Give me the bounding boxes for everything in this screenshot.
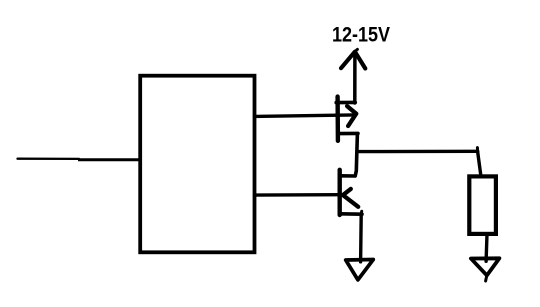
- supply arrow tip tail: [355, 49, 358, 51]
- wire Q1 collector to supply: [353, 54, 357, 104]
- transistor Q2 base bar: [338, 170, 342, 215]
- wire Q2 emitter to ground: [359, 214, 363, 262]
- wire corner down to resistor: [478, 151, 481, 176]
- wire resistor to ground: [484, 234, 488, 261]
- wire input (left, thin segment): [18, 158, 80, 160]
- ground (right): [471, 258, 500, 275]
- svg-text:12-15V: 12-15V: [332, 23, 390, 46]
- transistor Q1 base bar: [335, 97, 340, 141]
- transistor Q1 emitter horizontal: [338, 132, 358, 136]
- wire corner nub at Q2 emitter: [360, 211, 363, 214]
- wire box to Q1 base: [255, 115, 355, 117]
- transistor Q1 emitter arrowhead: [347, 106, 356, 126]
- supply arrow head: [341, 52, 365, 69]
- ground (middle): [346, 260, 374, 280]
- transistor Q1 collector horizontal: [336, 101, 355, 105]
- wire output node to resistor (horizontal): [357, 150, 477, 154]
- transistor Q2 emitter horizontal: [340, 212, 362, 216]
- driver block U1: [140, 76, 254, 253]
- wire input (left, thicker segment to block): [78, 158, 140, 161]
- node: Q1 emitter to Q2 collector vertical: [340, 134, 358, 177]
- transistor Q2 emitter arrow (points into bar): [343, 189, 358, 207]
- wire corner nub: [476, 148, 479, 152]
- ground (right) vertex tail: [486, 275, 487, 281]
- resistor R1: [469, 176, 496, 234]
- wire box to Q2 base: [255, 193, 341, 197]
